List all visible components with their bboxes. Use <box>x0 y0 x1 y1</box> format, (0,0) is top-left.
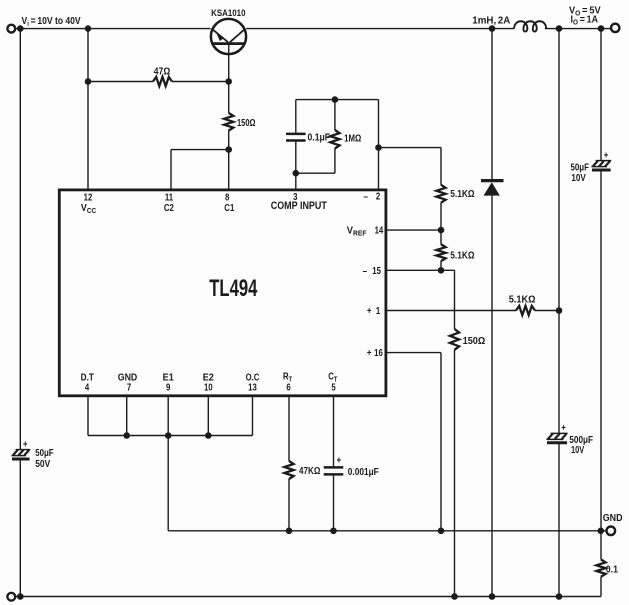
wire pin16 drop <box>440 353 442 531</box>
pin minus 2 label <box>363 190 380 201</box>
svg-text:0.1: 0.1 <box>606 564 618 576</box>
resistor R2 150ohm <box>224 113 233 131</box>
svg-text:10V: 10V <box>571 172 585 183</box>
label 0.001uF <box>348 466 379 477</box>
pin CT label <box>328 371 337 384</box>
label 150ohm upper <box>237 117 255 128</box>
label 0.1 <box>606 564 618 576</box>
wire divider middle <box>440 203 442 245</box>
wire pin15 drop <box>454 270 456 329</box>
wire 1Mohm bottom lead <box>334 149 336 174</box>
wire 47ohm row right <box>172 81 229 83</box>
wire pin6 drop <box>288 397 290 462</box>
pin 10 label <box>204 382 213 393</box>
svg-text:15: 15 <box>372 265 381 276</box>
pin E1 label <box>163 372 175 384</box>
wire pin1 row <box>386 310 516 312</box>
wire pin7 drop <box>126 397 128 436</box>
pin 6 label <box>286 382 290 393</box>
node ground sense junction <box>598 528 605 535</box>
svg-text:5.1KΩ: 5.1KΩ <box>509 294 536 306</box>
wire comp network top <box>296 99 379 101</box>
resistor R6 150ohm <box>450 329 459 350</box>
svg-text:150Ω: 150Ω <box>237 117 255 128</box>
resistor R3 1Mohm <box>330 130 339 149</box>
resistor R8 47Kohm <box>284 461 293 479</box>
svg-text:13: 13 <box>248 382 257 393</box>
bottom terminal <box>7 593 15 601</box>
capacitor C4 50uF 50V <box>11 450 30 459</box>
transistor Q1 KSA1010 <box>211 19 246 54</box>
node bus pin9 junction <box>165 432 172 439</box>
node diode junction top <box>489 25 496 32</box>
svg-text:16: 16 <box>374 347 383 358</box>
pin C2 label <box>164 202 174 213</box>
node 150ohm bottom junction <box>451 593 458 600</box>
node bus pin10 junction <box>205 432 212 439</box>
capacitor C1 0.1uF <box>286 134 306 141</box>
wire output rail lower <box>558 443 560 597</box>
svg-text:4: 4 <box>85 382 89 393</box>
svg-text:KSA1010: KSA1010 <box>211 7 246 18</box>
wire divider bottom lead <box>440 261 442 270</box>
label GND <box>603 513 623 525</box>
ground terminal GND <box>607 527 616 536</box>
node output cap junction <box>598 25 605 32</box>
resistor R4 5.1Kohm <box>436 185 445 203</box>
svg-text:150Ω: 150Ω <box>463 336 486 348</box>
node bus pin7 junction <box>123 432 130 439</box>
label + polarity C3 <box>337 455 342 466</box>
label Io = 1A <box>571 14 599 27</box>
svg-text:–: – <box>363 190 367 201</box>
resistor R9 0.1ohm <box>596 560 605 577</box>
label 10V output cap <box>571 444 584 455</box>
wire left rail upper <box>19 29 21 450</box>
node output rail junction <box>556 25 563 32</box>
node timing cap ground junction <box>330 528 337 535</box>
wire pin5 drop <box>333 397 335 468</box>
node bottom left junction <box>17 593 24 600</box>
svg-text:+: + <box>604 149 609 160</box>
resistor R5 5.1Kohm <box>436 244 445 261</box>
pin RT label <box>283 371 292 384</box>
pin E2 label <box>203 372 214 384</box>
pin 9 label <box>166 382 170 393</box>
pin 7 label <box>127 382 131 393</box>
node Vcc branch junction <box>85 25 92 32</box>
svg-text:6: 6 <box>286 382 290 393</box>
wire top rail right segment <box>246 28 514 30</box>
inductor L1 1mH <box>514 21 546 31</box>
wire pin2 to divider <box>379 147 442 149</box>
capacitor C6 50uF 10V <box>591 161 611 170</box>
wire pin4 drop <box>87 397 89 436</box>
svg-text:10V: 10V <box>571 444 584 455</box>
wire pin15 row <box>386 269 455 271</box>
wire left rail lower <box>19 459 21 596</box>
label TL494 <box>209 275 258 302</box>
wire pin3 lead lower <box>295 141 297 189</box>
node pin3 bottom junction <box>293 170 300 177</box>
svg-text:GND: GND <box>603 513 623 525</box>
svg-text:50V: 50V <box>35 458 51 469</box>
svg-text:+: + <box>23 438 28 449</box>
input terminal Vin <box>7 25 15 33</box>
wire 150ohm to ground rail <box>454 350 456 597</box>
wire 47ohm row left <box>88 81 153 83</box>
label 10V right <box>571 172 585 183</box>
svg-text:+: + <box>337 455 342 466</box>
node base junction <box>225 78 232 85</box>
node pin16 ground junction <box>438 528 445 535</box>
pin minus 15 label <box>363 265 381 276</box>
wire divider top lead <box>440 148 442 185</box>
wire sense resistor to bottom rail <box>600 577 602 597</box>
diode D1 <box>481 181 504 196</box>
svg-text:–: – <box>363 265 367 276</box>
svg-text:5.1KΩ: 5.1KΩ <box>450 188 474 199</box>
node C2 junction <box>225 146 232 153</box>
label 5.1Kohm feedback <box>509 294 536 306</box>
pin GND label <box>118 371 138 383</box>
label 1mH, 2A <box>472 16 510 27</box>
svg-text:1mH, 2A: 1mH, 2A <box>472 16 510 27</box>
pin plus 1 label <box>367 305 380 316</box>
label Vin = 10V to 40V <box>22 15 82 28</box>
label 47ohm <box>154 66 171 77</box>
pin D.T label <box>81 372 95 383</box>
pin 12 label <box>84 192 93 203</box>
svg-text:9: 9 <box>166 382 170 393</box>
wire 47Kohm to ground row <box>288 479 290 531</box>
wire feedback to output rail <box>535 310 559 312</box>
wire pin14 row <box>386 229 441 231</box>
label 50uF right <box>571 162 590 173</box>
wire output rail upper <box>558 29 560 434</box>
svg-text:+: + <box>367 347 372 358</box>
wire pin 2 drop <box>378 100 380 190</box>
node 47K ground junction <box>286 528 293 535</box>
wire pin9 drop <box>167 397 169 531</box>
svg-text:TL494: TL494 <box>209 275 258 302</box>
svg-text:0.1μF: 0.1μF <box>308 132 331 143</box>
pin COMP INPUT label <box>271 200 327 212</box>
svg-text:2: 2 <box>376 190 380 201</box>
svg-text:+: + <box>367 305 372 316</box>
pin C1 label <box>224 202 234 213</box>
op-amp U1 TL494 body <box>59 190 386 396</box>
node feedback junction <box>556 307 563 314</box>
svg-text:14: 14 <box>375 225 384 236</box>
node Vref junction <box>438 227 445 234</box>
label + polarity C6 <box>604 149 609 160</box>
svg-text:5.1KΩ: 5.1KΩ <box>450 250 474 261</box>
wire right rail middle <box>600 170 602 559</box>
label 500uF <box>569 434 593 445</box>
svg-text:+: + <box>561 422 566 433</box>
label + polarity C5 <box>561 422 566 433</box>
resistor R7 5.1Kohm feedback <box>516 306 535 315</box>
wire top rail left segment <box>15 28 210 30</box>
svg-text:47KΩ: 47KΩ <box>299 465 320 476</box>
pin 4 label <box>85 382 89 393</box>
wire C2 jog horizontal <box>171 149 229 151</box>
svg-text:7: 7 <box>127 382 131 393</box>
pin 14 label <box>375 225 384 236</box>
svg-text:1: 1 <box>376 305 380 316</box>
wire base lead <box>228 45 230 113</box>
pin 11 label <box>165 192 173 203</box>
wire right rail upper <box>600 29 602 161</box>
pin 13 label <box>248 382 257 393</box>
wire ground bus <box>88 435 253 437</box>
svg-text:COMP INPUT: COMP INPUT <box>271 200 327 212</box>
wire pin13 drop <box>252 397 254 436</box>
label 150ohm lower <box>463 336 486 348</box>
wire 150ohm to pin8 <box>228 131 230 190</box>
output terminal Vo <box>611 24 619 32</box>
pin 5 label <box>331 382 335 393</box>
label KSA1010 <box>211 7 246 18</box>
label Vo = 5V <box>569 5 601 17</box>
label 5.1Kohm middle <box>450 250 474 261</box>
node 1Mohm top junction <box>332 96 339 103</box>
wire inductor to output terminal <box>545 28 611 30</box>
wire 1Mohm bottom jog <box>296 172 335 174</box>
capacitor C5 500uF 10V <box>546 433 567 442</box>
node pin2 branch junction <box>375 144 382 151</box>
svg-text:12: 12 <box>84 192 93 203</box>
pin 3 label <box>293 191 297 202</box>
pin plus 16 label <box>367 347 383 358</box>
svg-text:47Ω: 47Ω <box>154 66 171 77</box>
pin Vref label <box>347 225 367 237</box>
svg-text:C1: C1 <box>224 202 234 213</box>
wire timing cap to ground row <box>333 474 335 530</box>
pin 8 label <box>225 192 229 203</box>
label 50uF input cap <box>35 447 54 458</box>
wire pin 11 drop <box>170 150 172 190</box>
label 0.1uF <box>308 132 331 143</box>
wire bottom rail <box>15 596 601 598</box>
node pin15 junction <box>438 267 445 274</box>
resistor R3 1Mohm top lead <box>334 100 336 130</box>
svg-text:C2: C2 <box>164 202 174 213</box>
wire diode branch lower <box>491 196 493 597</box>
svg-text:50μF: 50μF <box>35 447 54 458</box>
wire ground row <box>168 530 606 532</box>
pin O.C label <box>246 372 260 383</box>
node diode bottom junction <box>489 593 496 600</box>
capacitor C3 0.001uF <box>324 467 344 474</box>
node input rail junction <box>17 25 24 32</box>
wire pin16 row <box>386 352 441 354</box>
svg-text:10: 10 <box>204 382 213 393</box>
wire pin10 drop <box>207 397 209 436</box>
label 5.1Kohm upper <box>450 188 474 199</box>
node output rail bottom junction <box>556 593 563 600</box>
node 47ohm left junction <box>85 78 92 85</box>
resistor R1 47ohm <box>153 77 172 86</box>
label + polarity C4 <box>23 438 28 449</box>
wire pin3 lead upper <box>295 100 297 134</box>
wire Vcc rail <box>87 29 89 190</box>
label 47Kohm <box>299 465 320 476</box>
svg-text:1MΩ: 1MΩ <box>344 132 361 143</box>
label 1Mohm <box>344 132 361 143</box>
wire diode branch upper <box>491 29 493 180</box>
svg-text:5: 5 <box>331 382 335 393</box>
svg-text:0.001μF: 0.001μF <box>348 466 379 477</box>
label 50V input cap <box>35 458 51 469</box>
pin Vcc label <box>81 202 96 215</box>
